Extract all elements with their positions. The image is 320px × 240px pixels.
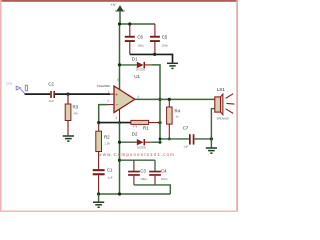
wire output to speaker <box>135 98 215 100</box>
svg-text:C3: C3 <box>140 168 146 173</box>
svg-text:C2: C2 <box>48 81 54 86</box>
svg-text:1uF: 1uF <box>183 144 188 148</box>
svg-text:C5: C5 <box>162 34 168 39</box>
wire D2 right to output column <box>152 141 160 143</box>
wire C6/C5 bottoms to ground <box>130 54 173 62</box>
svg-text:TDA2030: TDA2030 <box>97 84 110 88</box>
wire C3/C4 top row <box>120 159 156 161</box>
capacitor C1 <box>93 152 113 195</box>
ground (top right, supply caps) <box>167 63 178 68</box>
svg-text:LS1: LS1 <box>217 87 226 92</box>
capacitor C6 <box>125 24 144 54</box>
svg-text:1uF: 1uF <box>107 175 112 179</box>
svg-text:4: 4 <box>137 95 139 99</box>
node C5/ground wire <box>153 53 156 56</box>
node C7/speaker/ground <box>210 137 213 140</box>
pin 4 lead <box>135 98 141 100</box>
pin 3 lead <box>119 110 121 124</box>
audio input connector CN1 <box>6 81 27 93</box>
ground (bottom rail) <box>93 194 104 207</box>
svg-text:R4: R4 <box>175 108 181 113</box>
ground (zobel/speaker) <box>206 139 217 153</box>
svg-text:100n: 100n <box>161 177 168 181</box>
wire speaker bottom terminal <box>211 109 214 139</box>
wire C7 right to ground node <box>194 138 211 140</box>
svg-text:−: − <box>115 102 118 108</box>
diode D2 <box>120 131 153 149</box>
svg-text:C4: C4 <box>161 168 167 173</box>
svg-text:100n: 100n <box>161 44 168 48</box>
sheet border right <box>236 0 238 212</box>
resistor R2 <box>96 123 111 152</box>
svg-text:3: 3 <box>115 116 117 120</box>
wire pin3 column down to bottom rail <box>119 123 121 194</box>
node R1/output column <box>158 121 161 124</box>
wire output column down <box>159 99 161 142</box>
svg-text:100u: 100u <box>137 44 144 48</box>
pin 1 lead <box>110 93 115 95</box>
node D2/output column <box>159 141 162 144</box>
svg-text:DIODE: DIODE <box>136 68 145 72</box>
wire pin2 to feedback node <box>99 105 108 123</box>
capacitor C7 <box>183 125 195 148</box>
node +V line / D1 <box>118 63 121 66</box>
svg-text:47k: 47k <box>133 125 138 129</box>
svg-text:1k: 1k <box>175 115 179 119</box>
svg-text:DIODE: DIODE <box>137 146 146 150</box>
diode D1 <box>120 56 153 71</box>
node output/R4 <box>168 98 171 101</box>
wire input to C2 <box>25 93 51 95</box>
node pin3 wire crossing <box>118 121 121 124</box>
wire D1 right to output column <box>152 65 160 100</box>
node pin3/D2 <box>118 141 121 144</box>
capacitor C5 <box>150 24 169 54</box>
capacitor C4 <box>149 160 168 185</box>
svg-text:C1: C1 <box>107 167 113 172</box>
sheet border bottom <box>0 210 238 212</box>
svg-text:D1: D1 <box>132 56 138 61</box>
svg-text:D2: D2 <box>132 131 138 136</box>
svg-text:2: 2 <box>107 99 109 103</box>
node output/column <box>158 98 161 101</box>
wire +V down to rail <box>119 11 121 24</box>
svg-text:1.5k: 1.5k <box>104 141 110 145</box>
loudspeaker LS1 <box>215 87 235 120</box>
svg-text:www.Components101.com: www.Components101.com <box>98 152 174 157</box>
svg-text:R3: R3 <box>73 105 79 110</box>
wire C3/C4 bottoms to rail <box>134 185 170 194</box>
svg-text:C6: C6 <box>137 34 143 39</box>
svg-text:100u: 100u <box>140 177 147 181</box>
node rail/C1 <box>97 192 100 195</box>
svg-text:47k: 47k <box>73 111 78 115</box>
node rail/pin3 column <box>118 192 121 195</box>
node R4 bottom / zobel row <box>168 138 171 141</box>
pin 2 lead <box>108 104 115 106</box>
node feedback/R2 <box>97 121 100 124</box>
resistor R3 <box>65 94 78 135</box>
svg-text:+V: +V <box>111 2 116 7</box>
svg-text:+: + <box>115 93 118 99</box>
node output column / zobel row <box>159 138 162 141</box>
node rail/C6 <box>128 22 131 25</box>
wire +V vertical down to op-amp pin 5 <box>119 24 121 90</box>
node input/R3 <box>66 93 69 96</box>
wire pin3 column to C3/C4 row <box>118 159 121 162</box>
svg-text:1uF: 1uF <box>49 99 54 103</box>
svg-text:5: 5 <box>117 78 119 82</box>
wire feedback row to R1 <box>99 122 131 124</box>
wire bottom ground rail <box>99 193 171 195</box>
wire zobel row left <box>160 138 189 140</box>
capacitor C2 <box>48 81 55 103</box>
svg-text:CN1: CN1 <box>6 81 12 85</box>
op-amp U1 <box>97 74 141 120</box>
resistor R4 <box>167 99 181 138</box>
svg-text:R1: R1 <box>143 126 149 131</box>
capacitor C3 <box>128 160 147 185</box>
wire top supply rail <box>120 23 156 25</box>
svg-text:C7: C7 <box>183 125 189 130</box>
power terminal +V <box>111 2 125 11</box>
wire C2 to op-amp pin 1 <box>55 93 110 95</box>
svg-text:U1: U1 <box>134 74 140 79</box>
sheet border top <box>0 0 238 2</box>
resistor R1 <box>131 120 160 130</box>
ground (below R3) <box>63 136 74 141</box>
sheet border left <box>0 0 2 212</box>
svg-text:R2: R2 <box>104 135 110 140</box>
node rail/+V <box>118 22 121 25</box>
svg-text:SPEAKER: SPEAKER <box>217 116 229 120</box>
